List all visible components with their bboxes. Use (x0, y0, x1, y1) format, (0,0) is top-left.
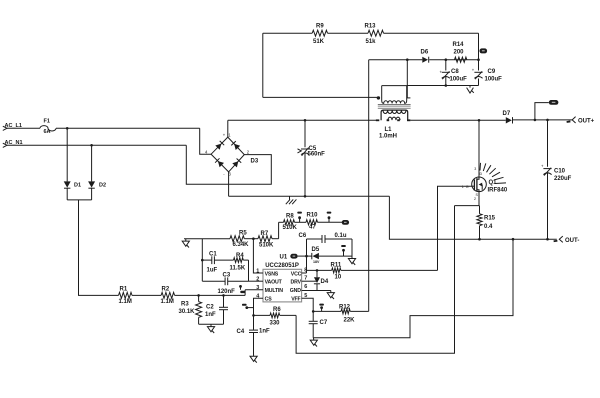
wire R3/C2 bottom bar (199, 323, 224, 325)
svg-text:F1: F1 (44, 119, 50, 125)
svg-text:51k: 51k (366, 39, 377, 45)
resistor R2 1.1M (161, 287, 175, 305)
wire D6 line (369, 59, 423, 61)
ground (arrow) below C8/C9 (467, 86, 474, 94)
svg-text:1: 1 (462, 185, 464, 189)
wire main rail (L1 to D7) (411, 119, 506, 121)
svg-text:18V: 18V (313, 260, 320, 264)
bridge rectifier D3 (205, 133, 259, 177)
wire main rail (bridge+ to L1) (228, 119, 377, 121)
resistor R5 6.34K (230, 230, 249, 248)
wire bridge+ up to main rail (227, 120, 229, 137)
wire R12 line (313, 310, 341, 312)
svg-text:VFF: VFF (291, 297, 300, 303)
svg-text:R12: R12 (339, 304, 351, 310)
svg-text:OUT+: OUT+ (578, 118, 595, 124)
wire R6 line (254, 314, 271, 316)
wire AC_L1 to fuse (7, 127, 40, 129)
svg-text:D: D (480, 172, 483, 176)
svg-text:C1: C1 (209, 251, 217, 257)
op-amp U1 UCC28051P body (256, 254, 307, 302)
svg-text:CS: CS (265, 297, 273, 303)
svg-text:R8: R8 (286, 214, 294, 220)
svg-text:VSNS: VSNS (265, 271, 279, 277)
port AC_L1 (3, 123, 22, 131)
wire fuse to bridge corner (56, 127, 200, 129)
pin 4 CS stub (254, 298, 264, 315)
ground at left of R5 line (182, 239, 189, 248)
wire down to MULTIN divider (79, 200, 119, 296)
resistor R10 47 (306, 213, 318, 231)
wire C6 right vertical (351, 239, 353, 259)
wire MULTIN drop to divider (244, 290, 246, 296)
svg-text:2: 2 (474, 197, 476, 201)
wire source bar (455, 192, 480, 206)
resistor R1 1.1M (119, 287, 133, 305)
capacitor C6 0.1u (299, 233, 353, 243)
svg-text:IRF840: IRF840 (488, 187, 508, 193)
diode D6 (421, 50, 429, 63)
capacitor C9 100uF (472, 67, 502, 82)
node R3 top (197, 294, 200, 297)
wire R5/R7 line (184, 238, 230, 240)
ground below C7 (310, 338, 317, 347)
svg-text:VAOUT: VAOUT (265, 280, 283, 286)
diode D4 (314, 269, 329, 290)
capacitor C3 120nF (202, 272, 248, 295)
test point R8-R10 junction (297, 212, 302, 223)
inductor L1 primary winding (376, 110, 411, 139)
wire CS sense down and left (296, 206, 454, 354)
svg-text:D6: D6 (421, 50, 429, 56)
resistor R14 200 (453, 42, 467, 62)
resistor R13 51k (365, 24, 384, 46)
wire R2 to MULTIN riser (175, 294, 246, 296)
svg-text:UCC28051P: UCC28051P (265, 263, 299, 269)
test point MULTIN line (239, 285, 245, 293)
wire control ground return (313, 239, 513, 338)
svg-text:6: 6 (304, 284, 307, 290)
port OUT- (553, 236, 579, 244)
svg-text:C7: C7 (320, 320, 328, 326)
svg-text:100uF: 100uF (485, 77, 503, 83)
power flag VCC bubble (480, 48, 488, 53)
wire comp right vertical to pin2 (248, 260, 250, 281)
svg-text:1nF: 1nF (259, 329, 270, 335)
node C2 top (222, 294, 225, 297)
svg-text:510K: 510K (283, 225, 298, 231)
capacitor C5 560nF (298, 120, 326, 196)
resistor R9 51K (312, 24, 327, 46)
resistor R4 11.5K (230, 253, 249, 272)
svg-text:R2: R2 (162, 287, 170, 293)
resistor R12 22K (339, 304, 355, 323)
test point on R12 line (319, 304, 324, 312)
pin 7 DRV stub (302, 280, 317, 282)
test point R10 right (327, 212, 332, 223)
wire gnd line (229, 195, 390, 197)
svg-text:R14: R14 (453, 42, 465, 48)
svg-text:560nF: 560nF (308, 151, 326, 157)
port AC_N1 (3, 140, 23, 148)
svg-text:R1: R1 (120, 287, 128, 293)
svg-text:U1: U1 (280, 254, 288, 260)
svg-text:1.1M: 1.1M (119, 299, 132, 305)
wire aux feed horizontal (263, 96, 377, 98)
svg-text:0.1u: 0.1u (335, 233, 347, 239)
svg-text:100uF: 100uF (450, 77, 468, 83)
svg-text:120nF: 120nF (218, 289, 236, 295)
node aux phase dot (377, 96, 380, 99)
pin 6 GND stub (302, 290, 331, 292)
svg-text:R5: R5 (239, 230, 247, 236)
diode D1 (64, 128, 81, 200)
ground below C6 (348, 259, 355, 265)
resistor R11 10 (331, 262, 342, 280)
svg-text:1.1M: 1.1M (161, 299, 174, 305)
svg-text:1nF: 1nF (205, 312, 216, 318)
svg-text:2: 2 (247, 150, 250, 155)
wire gate line (438, 186, 472, 270)
svg-text:D3: D3 (251, 159, 259, 165)
test point on CS pin line (242, 304, 254, 309)
svg-text:+: + (541, 164, 544, 169)
svg-text:30.1K: 30.1K (179, 309, 196, 315)
svg-text:C6: C6 (299, 233, 307, 239)
svg-text:R4: R4 (236, 253, 244, 259)
wire C8/C9 ground return (407, 85, 479, 87)
svg-text:R10: R10 (307, 213, 319, 219)
wire pin8 vertical (306, 239, 308, 273)
wire aux top edge / ground return left stub (382, 85, 407, 87)
svg-text:510K: 510K (259, 242, 274, 248)
svg-text:D7: D7 (503, 111, 511, 117)
wire R8/R10 line (279, 221, 284, 223)
wire R9/R13 top line (263, 32, 312, 34)
svg-text:47: 47 (309, 225, 316, 231)
inductor L1 aux winding (382, 86, 411, 104)
core of L1 (378, 105, 411, 109)
svg-text:MULTIN: MULTIN (265, 288, 284, 294)
svg-text:6A: 6A (44, 129, 51, 135)
capacitor C8 100uF (440, 60, 468, 86)
svg-text:D4: D4 (321, 279, 329, 285)
diode D7 (503, 111, 513, 123)
svg-text:3: 3 (474, 167, 476, 171)
svg-text:C2: C2 (206, 305, 214, 311)
capacitor C7 (309, 311, 328, 337)
wire long vertical (VFF sense) (368, 60, 370, 312)
svg-text:10: 10 (335, 274, 342, 280)
capacitor C4 1nF (237, 315, 271, 354)
svg-text:R6: R6 (273, 307, 281, 313)
svg-text:R13: R13 (365, 24, 377, 30)
svg-text:7: 7 (304, 275, 307, 281)
pin 2 VAOUT stub (249, 280, 264, 282)
svg-text:C4: C4 (237, 329, 245, 335)
resistor R8 510K (283, 214, 298, 232)
svg-text:L1: L1 (385, 127, 393, 133)
svg-text:C8: C8 (451, 69, 459, 75)
svg-text:R7: R7 (261, 231, 269, 237)
svg-text:+: + (472, 67, 475, 72)
svg-text:R11: R11 (331, 262, 342, 268)
capacitor C1 1uF (202, 251, 233, 273)
ground below pin6 (327, 291, 334, 300)
svg-text:1: 1 (228, 133, 231, 138)
svg-text:330: 330 (270, 320, 281, 326)
resistor R15 0.4 (477, 214, 496, 240)
pin 1 VSNS stub (253, 239, 263, 273)
junction dots main rail (304, 119, 307, 122)
svg-text:22K: 22K (344, 317, 356, 323)
svg-text:G: G (466, 185, 469, 189)
fuse F1 6A (40, 119, 56, 135)
wire comp left vertical (201, 239, 203, 282)
power flag bubble at R10 line end (342, 220, 349, 225)
svg-text:200: 200 (454, 50, 465, 56)
wire AC_N1 (7, 144, 186, 146)
svg-text:R9: R9 (316, 24, 324, 30)
resistor R7 510K (258, 231, 274, 248)
svg-text:11.5K: 11.5K (230, 266, 246, 272)
svg-text:1.0mH: 1.0mH (379, 133, 397, 139)
wire R1-R2 (132, 294, 161, 296)
svg-text:+: + (223, 133, 226, 138)
ground (hatched) (286, 196, 297, 204)
power flag bubble at D5 line (290, 254, 297, 259)
capacitor C10 220uF (541, 120, 572, 239)
wire bridge- down to gnd line (228, 172, 230, 196)
svg-text:VCC: VCC (291, 271, 302, 277)
svg-text:C9: C9 (488, 69, 496, 75)
svg-text:D1: D1 (74, 183, 81, 189)
svg-text:D5: D5 (312, 247, 320, 253)
svg-text:S: S (476, 193, 479, 197)
svg-text:R15: R15 (484, 216, 496, 222)
port OUT+ (566, 117, 594, 125)
svg-text:51K: 51K (313, 39, 325, 45)
svg-text:D2: D2 (99, 183, 106, 189)
wire gnd line drop to OUT- rail (389, 196, 556, 239)
wire aux right terminal up to D6 line (406, 60, 408, 98)
wire VCC right vertical with C9 (478, 33, 480, 70)
pin 5 VFF stub (302, 298, 314, 311)
resistor R3 30.1K (179, 295, 202, 324)
svg-text:DRV: DRV (291, 280, 302, 286)
svg-text:6.34K: 6.34K (233, 242, 250, 248)
wire N loop under bridge (186, 145, 271, 184)
svg-text:C3: C3 (223, 272, 231, 278)
svg-text:OUT-: OUT- (565, 238, 579, 244)
diode D2 (88, 145, 106, 200)
pin 8 VCC stub (302, 272, 307, 274)
wire top-left vertical down to aux feed (262, 33, 264, 97)
svg-text:0.4: 0.4 (484, 224, 493, 230)
svg-text:1uF: 1uF (207, 267, 218, 273)
wire drain from rail (478, 120, 480, 177)
wire D7 to OUT+ (513, 119, 573, 121)
test point on D5 line (341, 245, 346, 256)
ground below R3/C2 (207, 324, 214, 333)
power flag OUT bubble (535, 100, 558, 120)
wire R7 up to R8 line (278, 222, 280, 238)
pin 3 MULTIN stub (245, 289, 263, 291)
zener D5 18V (298, 247, 352, 264)
transistor Q1 IRF840 (462, 167, 508, 201)
capacitor C2 1nF (205, 295, 228, 324)
svg-text:GND: GND (290, 288, 301, 294)
svg-text:R3: R3 (181, 302, 189, 308)
heat rays arc (480, 163, 506, 184)
wire D1-D2 join bar (67, 199, 91, 201)
svg-text:4: 4 (205, 149, 208, 154)
svg-text:C10: C10 (554, 168, 566, 174)
svg-text:-: - (223, 171, 225, 176)
svg-text:220uF: 220uF (554, 176, 572, 182)
resistor R6 330 (270, 307, 282, 326)
wire L down to bridge left (200, 128, 211, 154)
ground below C4 (250, 354, 257, 363)
wire R11 line (307, 269, 332, 271)
